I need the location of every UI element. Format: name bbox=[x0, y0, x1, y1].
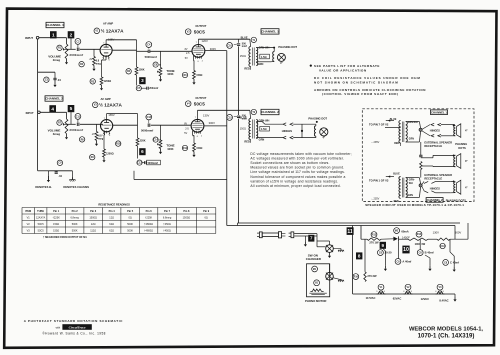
speaker SP1 4 inch bbox=[277, 53, 285, 61]
svg-text:RED: RED bbox=[394, 142, 399, 145]
svg-text:10: 10 bbox=[403, 247, 409, 253]
circuitrace point 8 bbox=[356, 252, 362, 259]
wire C13 to V4 grid bbox=[151, 124, 191, 126]
svg-text:PHASING DOTS: PHASING DOTS bbox=[446, 198, 466, 202]
svg-text:CHANNEL 1: CHANNEL 1 bbox=[261, 30, 279, 34]
svg-text:(CONTROL VIEWED FROM SHAFT END: (CONTROL VIEWED FROM SHAFT END) bbox=[322, 92, 399, 96]
svg-text:117VAC: 117VAC bbox=[366, 296, 376, 300]
chassis ground right of S1 bbox=[333, 248, 341, 250]
interlock plug P2 bbox=[289, 232, 291, 234]
svg-text:RECEPTACLE: RECEPTACLE bbox=[424, 177, 442, 181]
svg-text:1200Ω: 1200Ω bbox=[104, 80, 112, 83]
heater V3 bbox=[437, 284, 443, 290]
circuitrace point 1 bbox=[50, 31, 57, 38]
svg-text:2: 2 bbox=[201, 135, 202, 137]
heater V2 bbox=[405, 284, 411, 290]
resistor ext bbox=[420, 162, 422, 170]
svg-text:5: 5 bbox=[70, 106, 73, 112]
bypass capacitor C12 5000mmf bbox=[137, 146, 139, 159]
svg-text:C14: C14 bbox=[153, 138, 158, 141]
svg-text:220K: 220K bbox=[140, 140, 146, 143]
svg-text:3meg: 3meg bbox=[53, 132, 61, 136]
phasing dot channel 1 bbox=[273, 47, 275, 49]
svg-text:GRN-: GRN- bbox=[409, 180, 415, 182]
svg-text:←235V: ←235V bbox=[371, 198, 380, 201]
svg-text:9: 9 bbox=[382, 243, 385, 248]
selenium rectifier M2 bbox=[394, 228, 400, 234]
svg-text:2meg: 2meg bbox=[53, 58, 61, 62]
ground below R6 bbox=[193, 79, 195, 82]
svg-text:8V: 8V bbox=[185, 48, 188, 51]
wire screen B+ down-rail bbox=[205, 50, 227, 52]
svg-text:BLUE: BLUE bbox=[393, 172, 400, 175]
svg-text:50C5: 50C5 bbox=[194, 102, 205, 107]
speaker SP2 4 inch voice coil bbox=[314, 126, 316, 136]
svg-text:12Ω: 12Ω bbox=[91, 223, 96, 226]
cathode resistor R9 1200 ohm bbox=[104, 131, 106, 135]
svg-text:1500Ω: 1500Ω bbox=[89, 216, 97, 219]
notes bullet see parts list bbox=[310, 65, 312, 67]
svg-text:Pin 9: Pin 9 bbox=[203, 210, 210, 213]
svg-text:7: 7 bbox=[195, 117, 196, 119]
svg-text:†225K: †225K bbox=[53, 216, 61, 219]
svg-text:GRN-WH: GRN-WH bbox=[408, 122, 418, 124]
hinge contacts ext bottom bbox=[424, 181, 436, 192]
output transformer T1 bbox=[251, 37, 256, 42]
svg-text:2: 2 bbox=[70, 32, 73, 38]
svg-text:Pin 7: Pin 7 bbox=[164, 210, 171, 213]
wire V3 plate to coupling cap bbox=[113, 124, 138, 126]
capacitor C11 3000mmf bbox=[75, 114, 81, 120]
svg-text:GRN-WH: GRN-WH bbox=[259, 119, 270, 123]
svg-text:C12: C12 bbox=[137, 161, 142, 164]
svg-text:1500Ω: 1500Ω bbox=[183, 216, 191, 219]
svg-text:B 40mf: B 40mf bbox=[425, 251, 434, 255]
svg-text:BLUE: BLUE bbox=[241, 35, 248, 39]
svg-text:PHASING DOT: PHASING DOT bbox=[278, 45, 297, 49]
svg-text:8.4VAC: 8.4VAC bbox=[439, 299, 448, 303]
svg-text:62Ω: 62Ω bbox=[109, 223, 114, 226]
svg-text:150Ω: 150Ω bbox=[53, 223, 59, 226]
circuitrace point 3 bbox=[139, 77, 145, 84]
svg-text:130V: 130V bbox=[433, 230, 440, 234]
svg-text:500K: 500K bbox=[72, 229, 78, 232]
svg-text:Pin 4: Pin 4 bbox=[109, 210, 116, 213]
interlock plug P1 bbox=[257, 232, 259, 234]
svg-text:CHANNEL 2: CHANNEL 2 bbox=[427, 198, 443, 202]
motor M1 ref bbox=[312, 266, 318, 272]
svg-text:100K: 100K bbox=[167, 72, 173, 76]
svg-text:GRN: GRN bbox=[259, 137, 265, 141]
volume control R1 2meg bbox=[65, 44, 68, 59]
svg-text:C15: C15 bbox=[227, 116, 232, 119]
phasing dot marks top bbox=[453, 124, 455, 126]
svg-text:200mmf: 200mmf bbox=[149, 87, 158, 90]
wire V4 plate to output transformer T2 bbox=[197, 110, 199, 119]
svg-text:†450Ω: †450Ω bbox=[163, 223, 171, 226]
svg-text:C16: C16 bbox=[440, 245, 445, 248]
coupling capacitor C4 5000mmf bbox=[146, 42, 152, 48]
wires to 3 inch speaker bbox=[421, 157, 433, 159]
svg-text:INPUT: INPUT bbox=[26, 111, 34, 115]
svg-text:2: 2 bbox=[202, 60, 203, 62]
wire C4 to V2 grid bbox=[137, 50, 149, 52]
ext speaker 3in middle bbox=[454, 155, 456, 167]
svg-text:GRN: GRN bbox=[258, 62, 264, 66]
svg-text:CHANGER: CHANGER bbox=[306, 257, 322, 261]
svg-text:50C5: 50C5 bbox=[194, 30, 205, 35]
circuitrace point 5 bbox=[68, 105, 75, 112]
B+ rail vertical wire 1 bbox=[226, 51, 228, 226]
volume control R7 3meg bbox=[65, 119, 68, 134]
capacitor C9 .04 ch2 input bbox=[37, 112, 39, 171]
svg-text:6.8meg: 6.8meg bbox=[70, 216, 79, 219]
svg-text:0Ω: 0Ω bbox=[129, 216, 132, 219]
svg-text:TONE: TONE bbox=[166, 69, 174, 73]
svg-text:12Ω: 12Ω bbox=[109, 216, 114, 219]
filter capacitor C8A 40mf bbox=[395, 259, 401, 265]
plate bypass capacitor C15 500mmf bbox=[227, 115, 233, 121]
tone capacitor C14 bbox=[153, 137, 158, 142]
svg-text:6: 6 bbox=[109, 135, 110, 137]
phasing dot marks bottom bbox=[453, 181, 455, 183]
wire V2 plate to output transformer bbox=[197, 39, 199, 44]
svg-text:150Ω: 150Ω bbox=[196, 74, 202, 77]
wire V1 plate to coupling cap bbox=[112, 49, 136, 51]
ground below tone control ch2 bbox=[160, 149, 162, 152]
B+ rail vertical wire 2 bbox=[238, 46, 240, 115]
tone control R11 100K channel 2 bbox=[160, 125, 162, 140]
svg-text:DOTS: DOTS bbox=[458, 146, 466, 150]
svg-text:8V: 8V bbox=[184, 123, 187, 126]
svg-text:WH: WH bbox=[409, 183, 413, 185]
label CHANNEL 2 ext bbox=[426, 198, 443, 203]
svg-text:Pin 3: Pin 3 bbox=[90, 210, 97, 213]
label 1.5 ohm voice coil bbox=[260, 54, 270, 59]
svg-text:1200Ω: 1200Ω bbox=[106, 152, 114, 155]
filter capacitor C8 section 20-20 bbox=[378, 250, 384, 256]
svg-text:12AX7A: 12AX7A bbox=[36, 216, 46, 219]
svg-text:4: 4 bbox=[51, 106, 54, 112]
svg-text:PHASING: PHASING bbox=[455, 142, 467, 146]
resistance readings table bbox=[22, 208, 216, 234]
wire wiper to C11 bbox=[65, 123, 75, 125]
svg-text:mmf: mmf bbox=[242, 45, 247, 48]
wire input to volume control ch2 bbox=[40, 111, 66, 113]
wire plugs to switch bbox=[314, 235, 317, 237]
wires line to plugs bbox=[294, 233, 317, 235]
svg-text:6: 6 bbox=[198, 61, 199, 63]
svg-text:Pin 1: Pin 1 bbox=[53, 210, 60, 213]
ground arrows under filter caps bbox=[384, 266, 386, 269]
svg-text:mmf: mmf bbox=[242, 117, 247, 120]
tone capacitor C6 bbox=[153, 62, 158, 67]
B- bus channel 2 bbox=[134, 179, 227, 181]
circuitrace point 9 bbox=[380, 242, 386, 249]
svg-text:150Ω: 150Ω bbox=[240, 128, 246, 131]
svg-text:GRN: GRN bbox=[409, 139, 414, 141]
receptacle contacts top bbox=[419, 128, 422, 131]
svg-text:C11: C11 bbox=[76, 115, 81, 118]
svg-text:7: 7 bbox=[103, 43, 104, 45]
svg-text:6.8meg: 6.8meg bbox=[163, 216, 172, 219]
svg-text:5000mmf: 5000mmf bbox=[141, 128, 153, 132]
B- arrow legend symbol bbox=[47, 171, 49, 180]
switch S2 motor bbox=[326, 272, 334, 280]
svg-text:300V: 300V bbox=[455, 230, 462, 234]
wire line to motor circuit bbox=[329, 241, 331, 245]
circuitrace point 7 bbox=[308, 235, 314, 242]
svg-text:meg: meg bbox=[98, 137, 103, 140]
wire C11 to V3 grid bbox=[80, 123, 103, 125]
svg-text:112Ω: 112Ω bbox=[90, 229, 96, 232]
svg-text:270 2W: 270 2W bbox=[367, 274, 377, 278]
phono motor box bbox=[307, 264, 330, 297]
svg-text:R13: R13 bbox=[372, 233, 377, 236]
ground below R8 bbox=[96, 140, 98, 143]
ext secondary wires bottom bbox=[406, 177, 420, 179]
svg-text:CHANNEL 1: CHANNEL 1 bbox=[431, 110, 447, 114]
ground below R2 bbox=[93, 65, 95, 68]
svg-text:5V: 5V bbox=[184, 132, 187, 135]
wire point 11 down bbox=[352, 226, 354, 295]
motor B1 ref bbox=[314, 280, 320, 286]
svg-text:TUBE: TUBE bbox=[37, 210, 44, 213]
output transformer T2 bbox=[251, 109, 256, 114]
phasing dot channel 2 bbox=[316, 121, 318, 123]
svg-text:½ 12AX7A: ½ 12AX7A bbox=[101, 28, 125, 34]
svg-text:.04: .04 bbox=[57, 78, 61, 82]
svg-text:7: 7 bbox=[104, 118, 105, 120]
speaker SP2 4 inch bbox=[320, 128, 328, 136]
svg-text:DENOTES B-: DENOTES B- bbox=[35, 185, 52, 189]
motor winding bbox=[310, 289, 323, 291]
capacitor C16 bbox=[440, 243, 446, 248]
svg-text:variation of ±15% in voltage a: variation of ±15% in voltage and resista… bbox=[250, 179, 338, 183]
svg-text:©Howard W. Sams & Co., Inc. 19: ©Howard W. Sams & Co., Inc. 1958 bbox=[42, 332, 105, 336]
svg-text:All controls at minimum, prop: All controls at minimum, proper output l… bbox=[250, 184, 341, 188]
circuitrace point 4 bbox=[49, 105, 56, 112]
resistor R14 1000 ohm bbox=[416, 231, 422, 237]
filter capacitor C8B 40mf bbox=[417, 250, 423, 256]
svg-text:HINGES: HINGES bbox=[430, 128, 440, 132]
wire wiper to C2 bbox=[65, 48, 75, 50]
svg-text:Pin 2: Pin 2 bbox=[72, 210, 79, 213]
svg-text:50C5: 50C5 bbox=[38, 229, 45, 232]
dashed box speaker circuit TP-1070-1 bbox=[362, 109, 474, 202]
svg-text:1.5Ω: 1.5Ω bbox=[261, 127, 267, 131]
heater V1 bbox=[378, 284, 384, 290]
svg-text:PHONO MOTOR: PHONO MOTOR bbox=[305, 299, 326, 303]
svg-text:DENOTES CHASSIS: DENOTES CHASSIS bbox=[63, 185, 89, 189]
svg-text:Nominal tolerance of component: Nominal tolerance of component values ma… bbox=[250, 175, 345, 179]
svg-text:60mA: 60mA bbox=[401, 229, 408, 233]
svg-text:50C5: 50C5 bbox=[38, 223, 45, 226]
svg-text:130V: 130V bbox=[203, 114, 209, 118]
svg-text:150K: 150K bbox=[139, 69, 145, 72]
svg-text:.2V: .2V bbox=[89, 58, 93, 61]
svg-text:RED: RED bbox=[244, 140, 250, 144]
svg-text:OUTPUT: OUTPUT bbox=[195, 24, 206, 28]
speaker SP1 4 inch voice coil bbox=[273, 52, 275, 62]
svg-text:C10: C10 bbox=[227, 44, 232, 47]
svg-text:HINGES: HINGES bbox=[430, 186, 440, 190]
chassis ground legend symbol bbox=[71, 171, 73, 180]
svg-text:6: 6 bbox=[109, 60, 110, 62]
ground below R7 bbox=[66, 134, 68, 138]
circuitrace point 2 bbox=[68, 31, 75, 38]
svg-text:CHANNEL 1: CHANNEL 1 bbox=[46, 23, 64, 27]
svg-text:7: 7 bbox=[196, 42, 197, 44]
svg-text:12VAC: 12VAC bbox=[421, 297, 430, 301]
cathode resistor R3 1200 ohm bbox=[105, 56, 107, 60]
svg-text:6: 6 bbox=[141, 149, 144, 154]
svg-text:CircuiTrace: CircuiTrace bbox=[69, 326, 86, 330]
wire input to volume control bbox=[39, 37, 67, 39]
svg-text:5V: 5V bbox=[185, 57, 188, 60]
svg-text:500K: 500K bbox=[72, 223, 78, 226]
resistor R13 270 ohm 1W bbox=[371, 232, 377, 238]
speaker secondary wires bbox=[256, 47, 274, 49]
on-off switch S1 on changer bbox=[326, 245, 334, 253]
svg-text:150Ω: 150Ω bbox=[53, 229, 59, 232]
svg-text:R12: R12 bbox=[183, 147, 188, 150]
svg-text:1070-1 (Ch. 14X319): 1070-1 (Ch. 14X319) bbox=[418, 334, 475, 340]
svg-text:PHASING DOT: PHASING DOT bbox=[308, 116, 327, 120]
svg-text:8: 8 bbox=[358, 253, 361, 258]
svg-text:R10: R10 bbox=[116, 142, 121, 145]
svg-text:5000mmf: 5000mmf bbox=[148, 162, 159, 165]
plate bypass capacitor C10 500mmf bbox=[227, 43, 233, 49]
speaker wires via hinges ch2 bbox=[256, 121, 262, 123]
label 1.5 ohm voice coil ch2 bbox=[260, 126, 270, 131]
plate load resistor R10 220K bbox=[137, 114, 139, 139]
svg-text:WEBCOR MODELS 1054-1,: WEBCOR MODELS 1054-1, bbox=[409, 326, 483, 332]
filter capacitor C8C 40mf bbox=[443, 260, 449, 266]
ground end of heater string bbox=[454, 294, 456, 296]
resistor R15 100 ohm bbox=[437, 238, 450, 240]
svg-text:TONE: TONE bbox=[166, 143, 174, 147]
svg-text:1: 1 bbox=[102, 135, 103, 137]
ground below R3 bbox=[101, 85, 103, 88]
svg-text:VALUE OR APPLICATION: VALUE OR APPLICATION bbox=[319, 68, 367, 72]
svg-text:TO PIN 1 OF V3: TO PIN 1 OF V3 bbox=[369, 179, 389, 183]
svg-text:GRN: GRN bbox=[408, 195, 413, 197]
svg-text:AF AMP: AF AMP bbox=[103, 22, 113, 26]
receptacle contacts bottom bbox=[419, 184, 422, 187]
svg-text:RESISTANCE READINGS: RESISTANCE READINGS bbox=[98, 202, 130, 206]
coupling capacitor ext bbox=[419, 154, 422, 156]
ground below S1 bbox=[329, 252, 331, 255]
svg-text:INPUT: INPUT bbox=[25, 36, 33, 40]
svg-text:100K: 100K bbox=[167, 147, 173, 151]
svg-text:with: with bbox=[56, 325, 61, 329]
chassis ground right of S2 bbox=[333, 278, 340, 280]
ground below R1 bbox=[66, 59, 68, 63]
svg-text:NOT SHOWN ON SCHEMATIC DIAGRAM: NOT SHOWN ON SCHEMATIC DIAGRAM bbox=[314, 80, 399, 84]
svg-text:AF AMP: AF AMP bbox=[101, 97, 111, 101]
hinge contacts ch2 bbox=[283, 123, 293, 139]
cathode resistor R12 150 ohm bbox=[192, 131, 194, 136]
circuitrace point 11 bbox=[347, 227, 354, 235]
tone control R5 100K channel 1 bbox=[160, 51, 162, 67]
plate load resistor R4 150K bbox=[136, 40, 138, 67]
svg-text:150Ω: 150Ω bbox=[240, 55, 246, 58]
ext speaker 4in top bbox=[454, 125, 456, 135]
wire input shield down bbox=[37, 39, 39, 112]
svg-text:1.5Ω: 1.5Ω bbox=[261, 55, 267, 59]
svg-text:AC voltages measured with 1000: AC voltages measured with 1000 ohm-per-v… bbox=[250, 157, 344, 161]
circuitrace point 6 bbox=[139, 148, 145, 155]
svg-text:←235V: ←235V bbox=[371, 141, 380, 144]
svg-text:500K: 500K bbox=[127, 229, 133, 232]
svg-text:†4800Ω: †4800Ω bbox=[144, 223, 153, 226]
junction ch2 speaker bbox=[301, 124, 303, 137]
svg-text:3000mmf: 3000mmf bbox=[69, 128, 83, 132]
svg-text:Pin 8: Pin 8 bbox=[183, 210, 190, 213]
svg-text:TO PIN 7 OF V2: TO PIN 7 OF V2 bbox=[369, 123, 389, 127]
svg-text:Pin 5: Pin 5 bbox=[127, 210, 134, 213]
svg-text:HINGES: HINGES bbox=[282, 129, 293, 133]
svg-text:meg: meg bbox=[96, 62, 101, 65]
svg-text:R14: R14 bbox=[417, 233, 422, 236]
capacitor C3 .04 ch1 input bbox=[38, 71, 55, 73]
svg-text:500K: 500K bbox=[127, 223, 133, 226]
svg-text:270 1W: 270 1W bbox=[369, 240, 379, 244]
svg-text:RECEPTACLE: RECEPTACLE bbox=[424, 144, 442, 148]
svg-text:6: 6 bbox=[197, 136, 198, 138]
capacitor C2 3000mmf bbox=[75, 39, 81, 45]
svg-text:R16: R16 bbox=[354, 275, 359, 278]
svg-text:Line voltage maintained at 117: Line voltage maintained at 117 volts for… bbox=[250, 170, 345, 174]
svg-text:DC voltage measurements taken: DC voltage measurements taken with vacuu… bbox=[250, 152, 351, 156]
grid resistor R2 6.8meg bbox=[93, 49, 95, 56]
cathode resistor R6 150 ohm bbox=[192, 56, 194, 61]
label CHANNEL 1 ext bbox=[431, 110, 448, 115]
svg-text:Measured values are from socke: Measured values are from socket pin to c… bbox=[250, 166, 344, 170]
label CHANNEL 1 speaker bbox=[261, 29, 279, 34]
label CHANNEL 1 input bbox=[46, 22, 64, 27]
svg-text:11: 11 bbox=[347, 229, 353, 235]
svg-text:A PHOTOFACT STANDARD NOTATI: A PHOTOFACT STANDARD NOTATION SCHEMATIC bbox=[24, 319, 124, 323]
label CHANNEL 2 input bbox=[45, 96, 63, 101]
svg-text:½ 12AX7A: ½ 12AX7A bbox=[99, 102, 123, 108]
svg-text:3: 3 bbox=[141, 78, 144, 83]
bypass capacitor C5 200mmf bbox=[136, 75, 138, 86]
svg-text:ITEM: ITEM bbox=[25, 210, 31, 213]
svg-text:SPEAKER CIRCUIT USED IN MODELS: SPEAKER CIRCUIT USED IN MODELS TP-1070-1… bbox=[365, 203, 464, 207]
AC line bus upper bbox=[238, 222, 461, 224]
svg-text:Pin 6: Pin 6 bbox=[146, 210, 153, 213]
svg-text:†450Ω: †450Ω bbox=[163, 229, 171, 232]
label CHANNEL 2 speaker bbox=[261, 109, 279, 114]
svg-text:62Ω: 62Ω bbox=[109, 229, 114, 232]
heater string wire bbox=[353, 293, 455, 295]
grid resistor R8 6.8meg bbox=[96, 124, 98, 131]
svg-text:3000mmf: 3000mmf bbox=[69, 53, 83, 57]
svg-text:GRN-WH: GRN-WH bbox=[259, 45, 270, 49]
ground below point 7 bbox=[304, 236, 306, 241]
svg-text:.04: .04 bbox=[58, 174, 62, 178]
svg-text:6Ω: 6Ω bbox=[205, 216, 208, 219]
svg-text:300V: 300V bbox=[209, 121, 215, 125]
svg-text:EXTERNAL SPEAKER: EXTERNAL SPEAKER bbox=[424, 173, 452, 177]
svg-text:C13: C13 bbox=[147, 116, 152, 119]
wire screen B+ ch2 bbox=[204, 125, 227, 127]
ground below R9 bbox=[103, 157, 105, 160]
svg-text:†225K: †225K bbox=[145, 216, 153, 219]
ext secondary wires top bbox=[406, 121, 420, 123]
